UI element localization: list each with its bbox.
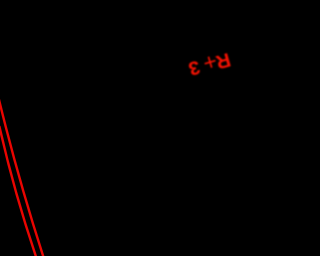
- red line right: [0, 96, 44, 256]
- text R+3: [213, 47, 233, 73]
- wire: [0, 0, 256, 256]
- red line left: [0, 126, 37, 256]
